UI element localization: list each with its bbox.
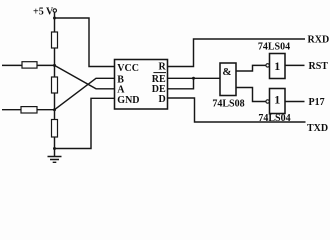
svg-text:A: A xyxy=(117,85,125,96)
svg-text:P17: P17 xyxy=(309,97,325,108)
svg-text:RE: RE xyxy=(152,74,166,85)
svg-text:TXD: TXD xyxy=(307,123,328,134)
svg-text:GND: GND xyxy=(117,95,139,106)
svg-text:RST: RST xyxy=(309,61,329,72)
svg-text:R: R xyxy=(158,62,166,73)
svg-text:74LS08: 74LS08 xyxy=(212,99,244,110)
svg-text:RXD: RXD xyxy=(308,35,330,46)
svg-text:+5 V: +5 V xyxy=(33,7,54,18)
svg-text:&: & xyxy=(222,66,231,78)
svg-text:1: 1 xyxy=(274,93,280,107)
svg-text:VCC: VCC xyxy=(117,63,139,74)
svg-text:74LS04: 74LS04 xyxy=(258,113,290,124)
svg-text:D: D xyxy=(158,94,165,105)
svg-text:1: 1 xyxy=(274,59,280,73)
svg-text:74LS04: 74LS04 xyxy=(258,42,290,53)
